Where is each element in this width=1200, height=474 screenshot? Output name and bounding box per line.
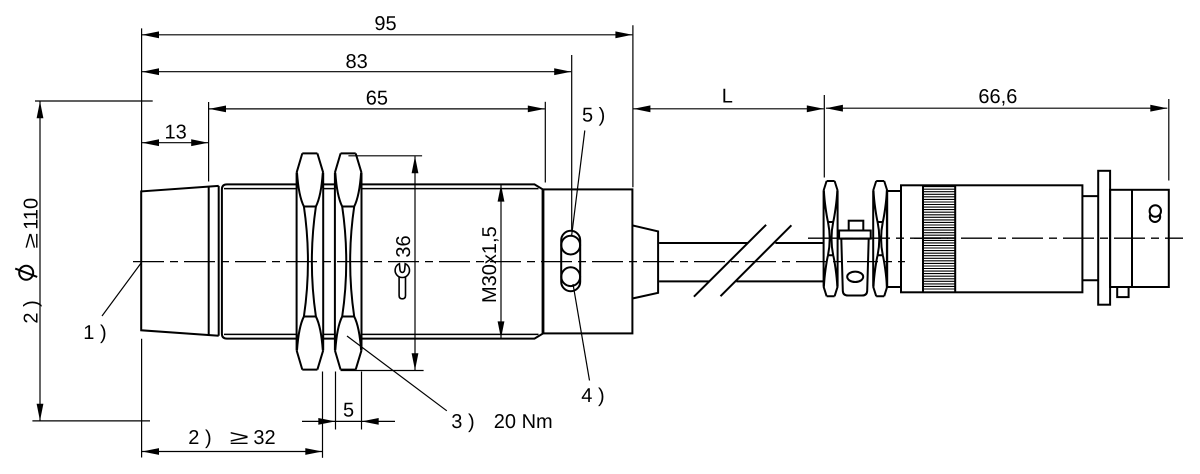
ext line x632.9 bbox=[632, 25, 634, 187]
arrowhead 36 bottom bbox=[412, 353, 419, 370]
ext line y101 top-left bbox=[35, 100, 153, 102]
cable clamp body bbox=[841, 239, 868, 296]
rear housing cap bbox=[543, 189, 632, 333]
cable clamp collar bbox=[839, 231, 871, 239]
arrowhead dia110 top bbox=[37, 101, 44, 118]
svg-text:L: L bbox=[722, 86, 733, 108]
leader 4 bbox=[573, 284, 590, 381]
arrowhead 65 right bbox=[528, 106, 545, 113]
arrowhead L left bbox=[633, 105, 650, 112]
gland hex nut A bbox=[824, 181, 838, 296]
ext line x571.7 bbox=[571, 55, 573, 232]
LED 4 (bottom circle) bbox=[561, 267, 580, 286]
arrowhead ge32 right bbox=[305, 448, 322, 455]
arrowhead 65 left bbox=[209, 106, 226, 113]
cable break symbol bbox=[694, 225, 792, 297]
arrowhead 66,6 left bbox=[826, 105, 843, 112]
bottom tab bbox=[1117, 287, 1128, 297]
ext line x361.5 bbox=[361, 372, 363, 430]
cable bbox=[659, 243, 823, 281]
svg-text:4 ): 4 ) bbox=[581, 385, 604, 407]
svg-text:36: 36 bbox=[393, 235, 415, 257]
svg-text:13: 13 bbox=[164, 121, 186, 143]
arrowhead 13 left bbox=[142, 139, 159, 146]
ext line x208.6 bbox=[208, 102, 210, 182]
sensor head (active face cap) bbox=[141, 186, 219, 336]
dimension texts bbox=[15, 13, 1017, 449]
centerline sensor axis bbox=[133, 261, 905, 263]
leader 5 bbox=[572, 131, 585, 236]
flange bbox=[1098, 171, 1110, 305]
arrowhead M30 top bbox=[498, 185, 505, 202]
arrowhead ge32 left bbox=[142, 448, 159, 455]
svg-text:95: 95 bbox=[374, 13, 396, 35]
dim line dia110 bbox=[39, 101, 41, 421]
leader 3 bbox=[347, 336, 447, 411]
ext line face x141.6 bbox=[141, 28, 143, 457]
svg-text:≥: ≥ bbox=[230, 427, 249, 449]
dim line 36 bbox=[414, 156, 416, 370]
dim line M30 bbox=[500, 185, 502, 339]
ext line x1168.8 bbox=[1168, 99, 1170, 181]
arrowhead 83 right bbox=[554, 68, 571, 75]
end block inner edge bbox=[1131, 190, 1133, 287]
ext line x545.3 bbox=[544, 102, 546, 183]
svg-text:66,6: 66,6 bbox=[978, 86, 1017, 108]
svg-text:2 ): 2 ) bbox=[21, 300, 43, 323]
arrowhead L right bbox=[807, 105, 824, 112]
arrowhead 36 top bbox=[412, 156, 419, 173]
svg-text:2 ): 2 ) bbox=[188, 427, 211, 449]
dim line 83 bbox=[142, 71, 571, 73]
arrowhead 13 right bbox=[191, 139, 208, 146]
cable clamp knob bbox=[849, 221, 864, 231]
head/collar inner edge bbox=[208, 187, 210, 335]
dim line 5 bbox=[302, 420, 395, 422]
receptacle end block bbox=[1110, 190, 1169, 287]
svg-text:110: 110 bbox=[21, 198, 43, 230]
arrowhead M30 bottom bbox=[498, 321, 505, 338]
dim line 66,6 bbox=[826, 107, 1167, 109]
hex nut N1 bbox=[297, 153, 324, 369]
cable strain-relief stub bbox=[632, 225, 658, 298]
arrowhead 95 right bbox=[615, 31, 632, 38]
arrowhead 95 left bbox=[142, 31, 159, 38]
svg-text:5 ): 5 ) bbox=[582, 105, 605, 127]
pin lower circle bbox=[1150, 212, 1160, 222]
dim line L bbox=[633, 108, 823, 110]
clamp hole (ellipse) bbox=[847, 272, 863, 282]
svg-text:M30x1,5: M30x1,5 bbox=[479, 226, 501, 303]
ext line y420.9 bottom-left bbox=[32, 420, 150, 422]
dim line 13 bbox=[142, 142, 208, 144]
knurling lines bbox=[923, 187, 955, 289]
svg-text:65: 65 bbox=[366, 87, 388, 109]
svg-text:≥: ≥ bbox=[21, 233, 43, 249]
gland hex nut B bbox=[873, 181, 887, 296]
centerline connector axis bbox=[808, 237, 1183, 239]
dim line ge32 bbox=[142, 451, 322, 453]
arrowhead 5 left bbox=[318, 418, 335, 425]
LED 5 (top circle) bbox=[561, 236, 580, 255]
pin upper circle bbox=[1150, 205, 1161, 216]
svg-text:5: 5 bbox=[343, 399, 354, 421]
ext line 36-top y155.8 bbox=[348, 155, 422, 157]
label diameter symbol bbox=[15, 266, 37, 280]
threaded barrel outline bbox=[222, 184, 543, 338]
neck bbox=[1082, 196, 1098, 280]
arrowhead 83 left bbox=[142, 68, 159, 75]
leader 1 bbox=[102, 263, 141, 316]
connector ring bbox=[887, 191, 901, 287]
arrowhead 66,6 right bbox=[1150, 105, 1167, 112]
hex nut N2 bbox=[335, 153, 362, 369]
ext line x824.3 bbox=[823, 95, 825, 178]
ext line x335.5 bbox=[335, 372, 337, 430]
wrench symbol head bbox=[395, 264, 409, 278]
LED window slot bbox=[561, 231, 580, 291]
arrowhead 5 right bbox=[362, 418, 379, 425]
ext line 36-bottom y370.5 bbox=[341, 370, 424, 372]
ext line x322.5 bbox=[322, 372, 324, 458]
arrowhead dia110 bottom bbox=[37, 404, 44, 421]
barrel thread inner lines bbox=[224, 189, 539, 335]
centerline dash across knurl bbox=[914, 237, 948, 239]
knurl band edges bbox=[923, 185, 955, 292]
svg-text:83: 83 bbox=[345, 51, 367, 73]
connector body cylinder bbox=[901, 185, 1082, 292]
dim line 95 bbox=[142, 34, 632, 36]
svg-text:20 Nm: 20 Nm bbox=[494, 411, 553, 433]
svg-text:3 ): 3 ) bbox=[451, 411, 474, 433]
wrench symbol stem bbox=[399, 270, 405, 299]
dim line 65 bbox=[209, 108, 545, 110]
svg-text:32: 32 bbox=[253, 427, 275, 449]
svg-text:1 ): 1 ) bbox=[83, 322, 106, 344]
